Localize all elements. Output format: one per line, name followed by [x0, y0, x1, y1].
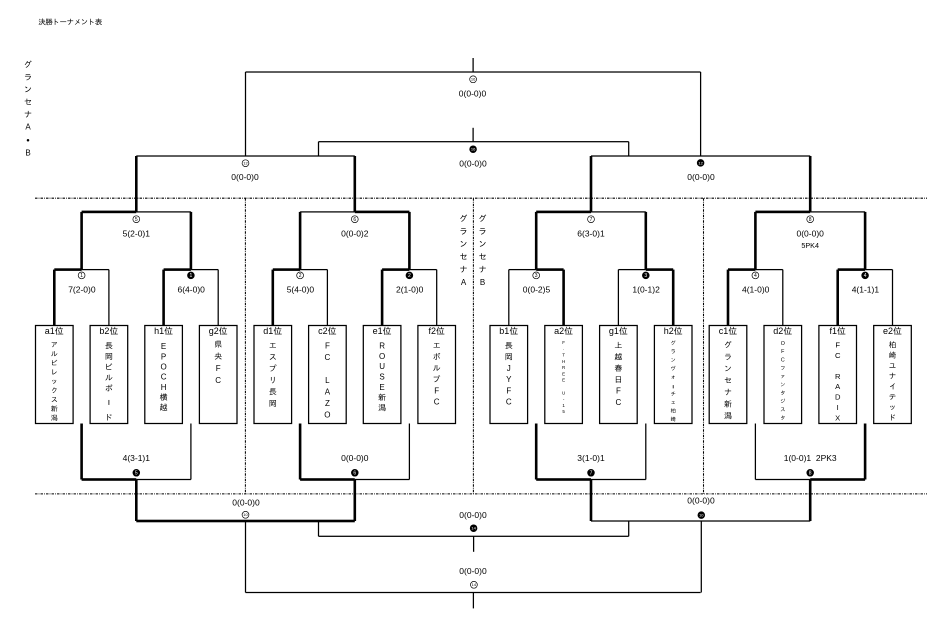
wire riser quarterfinal to semifinal x=810.2	[809, 156, 812, 212]
svg-text:F: F	[325, 341, 330, 350]
wire match 6 left riser	[299, 212, 302, 270]
wire match 7 right riser	[645, 212, 648, 270]
node match 6b consolation	[351, 469, 358, 476]
svg-text:0(0-0)0: 0(0-0)0	[341, 453, 369, 463]
wire match 4b crossbar thick-left	[838, 268, 865, 271]
svg-text:F: F	[616, 387, 621, 396]
wire match 8b crossbar thick-right	[755, 479, 810, 480]
svg-text:14: 14	[472, 582, 477, 587]
wire semifinal left crossbar (match 12)	[136, 155, 354, 156]
svg-text:4: 4	[864, 273, 867, 279]
svg-text:d1: d1	[263, 326, 273, 336]
wire 13th-place bottom stub	[473, 536, 474, 552]
wire 13th-place crossbar (match 14b)	[319, 536, 629, 537]
node match 3b round1	[642, 272, 649, 279]
team box a1位 アルビレックス新潟	[36, 326, 74, 424]
wire match 10b crossbar	[591, 520, 810, 521]
svg-text:h2: h2	[664, 326, 674, 336]
svg-text:d2: d2	[773, 326, 783, 336]
svg-text:O: O	[160, 363, 166, 372]
svg-text:4(1-0)0: 4(1-0)0	[742, 284, 770, 294]
svg-text:0(0-0)0: 0(0-0)0	[796, 228, 824, 238]
svg-text:3: 3	[644, 273, 647, 279]
wire match 1 crossbar thick-left	[54, 268, 81, 271]
svg-text:D: D	[835, 393, 841, 402]
wire 3rd-place top stub	[472, 128, 473, 142]
wire 3rd-place crossbar (match 16b)	[319, 141, 629, 142]
svg-text:c2: c2	[318, 326, 328, 336]
wire 3rd-place right drop	[628, 142, 629, 156]
wire match 4b winner drop-left	[836, 270, 839, 326]
wire final crossbar (match 16)	[246, 71, 701, 72]
svg-text:O: O	[379, 352, 385, 361]
node match 4 round1	[752, 272, 759, 279]
wire match 4 crossbar thick-left	[728, 268, 755, 271]
wire match 3b winner drop-right	[672, 270, 675, 326]
svg-text:A: A	[25, 123, 31, 132]
wire match 3 loser drop-left	[508, 270, 509, 326]
wire match 4b loser drop-right	[892, 270, 893, 326]
wire match 1b crossbar thick-left	[164, 268, 191, 271]
wire 3rd-place left drop	[318, 142, 319, 156]
svg-text:0(0-0)0: 0(0-0)0	[232, 498, 260, 508]
team box c1位 グランセナ新潟	[709, 326, 747, 424]
svg-text:B: B	[480, 278, 485, 287]
wire semifinal right riser	[700, 72, 701, 156]
svg-text:4: 4	[754, 273, 757, 279]
svg-text:e2: e2	[883, 326, 893, 336]
wire match 4 loser drop-right	[782, 270, 783, 326]
svg-text:7: 7	[590, 471, 593, 477]
wire match 8b advance drop	[809, 480, 812, 522]
team box b2位 長岡ビルボード	[90, 326, 128, 424]
wire match 2 crossbar thick-left	[273, 268, 300, 271]
team box a2位 F.THREE U-15	[545, 326, 583, 424]
svg-text:0(0-0)0: 0(0-0)0	[459, 158, 487, 168]
svg-text:A: A	[461, 278, 467, 287]
wire 13th-place left drop	[318, 521, 319, 536]
svg-text:I: I	[837, 403, 839, 412]
svg-text:5(4-0)0: 5(4-0)0	[287, 284, 315, 294]
wire match 2 winner drop-left	[272, 270, 275, 326]
svg-text:1: 1	[80, 273, 83, 279]
svg-text:7: 7	[590, 217, 593, 223]
svg-text:C: C	[506, 398, 512, 407]
node match 14	[471, 581, 478, 588]
svg-text:C: C	[781, 357, 785, 363]
svg-text:0(0-0)0: 0(0-0)0	[687, 496, 715, 506]
team box g1位 上越春日FC	[600, 326, 638, 424]
team box f1位 FC RADIX	[819, 326, 857, 424]
svg-text:A: A	[325, 387, 331, 396]
wire match 1 winner drop-left	[53, 270, 56, 326]
wire match 1 loser drop-right	[108, 270, 109, 326]
svg-text:5PK4: 5PK4	[801, 241, 819, 250]
svg-text:16: 16	[471, 77, 476, 82]
svg-text:H: H	[562, 359, 565, 364]
svg-text:2(1-0)0: 2(1-0)0	[396, 284, 424, 294]
team box f2位 エボルブFC	[418, 326, 456, 424]
svg-text:6: 6	[353, 471, 356, 477]
wire match 7 left riser	[535, 212, 538, 270]
wire match 10 crossbar (all thick)	[136, 520, 354, 523]
node match 8b consolation	[807, 469, 814, 476]
svg-text:E: E	[562, 378, 565, 383]
wire consolation 6b loser drop x=409.4	[409, 424, 410, 480]
svg-text:U: U	[562, 390, 565, 395]
team box d1位 エスプリ長岡	[254, 326, 292, 424]
wire match 1b loser drop-right	[218, 270, 219, 326]
node match 16 final	[470, 76, 477, 83]
svg-text:h1: h1	[154, 326, 164, 336]
team box d2位 OFCファンタジスタ	[764, 326, 802, 424]
svg-text:a2: a2	[554, 326, 564, 336]
team box e1位 ROUSE新潟	[363, 326, 401, 424]
svg-text:C: C	[835, 351, 841, 360]
svg-text:1(0-0)1 2PK3: 1(0-0)1 2PK3	[784, 453, 837, 463]
wire consolation 5b loser drop x=190.9	[190, 424, 191, 480]
node match 10b	[698, 512, 705, 519]
svg-text:12: 12	[243, 161, 248, 166]
wire match 5 crossbar thick-left	[82, 211, 137, 214]
svg-text:6: 6	[353, 217, 356, 223]
svg-text:12: 12	[698, 160, 703, 165]
title 決勝トーナメント表	[39, 18, 102, 25]
node match 5 quarterfinal	[133, 216, 140, 223]
wire consolation 6b winner drop x=300.1	[299, 424, 302, 480]
svg-text:C: C	[434, 398, 440, 407]
svg-text:b2: b2	[99, 326, 109, 336]
node match 7 quarterfinal	[588, 216, 595, 223]
wire match 3b loser drop-left	[618, 270, 619, 326]
svg-text:E: E	[562, 371, 565, 376]
dotted divider horizontal upper	[35, 197, 927, 199]
wire consolation 5b winner drop x=81.6	[80, 424, 83, 480]
svg-text:0(0-0)0: 0(0-0)0	[459, 566, 487, 576]
svg-text:b1: b1	[499, 326, 509, 336]
wire bottom-final left riser	[245, 521, 246, 593]
svg-text:C: C	[616, 398, 622, 407]
wire bottom-final bottom stub	[473, 593, 474, 609]
wire match 6 right riser	[408, 212, 411, 270]
svg-text:14: 14	[471, 526, 476, 531]
wire match 2b crossbar thick-left	[382, 268, 409, 271]
svg-text:0(0-0)0: 0(0-0)0	[687, 172, 715, 182]
node match 7b consolation	[588, 469, 595, 476]
svg-text:C: C	[161, 373, 167, 382]
team box g2位 県央FC	[199, 326, 237, 424]
svg-text:0(0-0)0: 0(0-0)0	[459, 88, 487, 98]
svg-text:.: .	[563, 346, 564, 351]
wire match 7 crossbar thick-left	[536, 211, 591, 214]
svg-text:F: F	[562, 340, 565, 345]
wire final top stub	[472, 58, 473, 72]
svg-text:8: 8	[809, 471, 812, 477]
team box e2位 柏崎ユナイテッド	[874, 326, 912, 424]
team box c2位 FC LAZO	[309, 326, 347, 424]
svg-text:e1: e1	[373, 326, 383, 336]
svg-text:F: F	[216, 364, 221, 373]
wire match 6b crossbar thick-left	[300, 478, 355, 481]
wire 13th-place right drop	[628, 521, 629, 536]
svg-text:10: 10	[699, 513, 704, 518]
dotted divider horizontal lower	[35, 493, 927, 495]
svg-text:2: 2	[408, 273, 411, 279]
wire match 8 crossbar thick-left	[755, 211, 810, 214]
svg-text:X: X	[835, 414, 840, 423]
node match 6 quarterfinal	[351, 216, 358, 223]
wire riser quarterfinal to semifinal x=591.0	[590, 156, 593, 212]
node match 8 quarterfinal	[807, 216, 814, 223]
svg-text:4(1-1)1: 4(1-1)1	[852, 284, 880, 294]
wire bottom-final crossbar (match 14)	[246, 592, 701, 593]
node match 1b round1	[188, 272, 195, 279]
svg-text:6(3-0)1: 6(3-0)1	[577, 228, 605, 238]
dotted divider vertical right	[703, 198, 705, 494]
node match 16b 3rd-place	[470, 146, 477, 153]
wire match 3b crossbar thick-right	[618, 269, 645, 270]
node match 3 round1	[533, 272, 540, 279]
svg-text:5: 5	[135, 471, 138, 477]
node match 2b round1	[406, 272, 413, 279]
wire match 4 winner drop-left	[727, 270, 730, 326]
node match 4b round1	[862, 272, 869, 279]
svg-text:2: 2	[299, 273, 302, 279]
svg-text:10: 10	[243, 512, 248, 517]
svg-text:U: U	[379, 362, 385, 371]
svg-text:4(3-1)1: 4(3-1)1	[123, 453, 151, 463]
svg-text:0(0-0)0: 0(0-0)0	[231, 172, 259, 182]
svg-text:F: F	[434, 386, 439, 395]
wire match 2b loser drop-right	[436, 270, 437, 326]
wire match 6b advance drop	[354, 480, 357, 522]
svg-text:c1: c1	[719, 326, 729, 336]
wire bottom-final right riser	[701, 521, 702, 593]
svg-text:0(0-2)5: 0(0-2)5	[523, 284, 551, 294]
svg-text:O: O	[781, 341, 785, 347]
svg-text:a1: a1	[45, 326, 55, 336]
svg-text:1: 1	[190, 273, 193, 279]
node match 14b	[470, 525, 477, 532]
node match 10	[242, 511, 249, 518]
svg-text:F: F	[835, 340, 840, 349]
team box h2位 グランヴォーチェ柏崎	[654, 326, 692, 424]
svg-text:5: 5	[135, 217, 138, 223]
team box b1位 長岡JYFC	[490, 326, 528, 424]
wire semifinal right crossbar (match 12b)	[591, 155, 810, 156]
svg-text:3(1-0)1: 3(1-0)1	[577, 453, 605, 463]
svg-text:6(4-0)0: 6(4-0)0	[177, 284, 205, 294]
wire semifinal left riser	[245, 72, 246, 156]
svg-text:J: J	[507, 364, 511, 373]
wire match 8 right riser	[864, 212, 867, 270]
node match 12 semifinal-left	[242, 160, 249, 167]
svg-text:C: C	[215, 376, 221, 385]
svg-text:S: S	[379, 372, 384, 381]
svg-text:16: 16	[471, 147, 476, 152]
svg-text:F: F	[506, 386, 511, 395]
wire match 1b winner drop-left	[162, 270, 165, 326]
label group グランセナB (center)	[479, 215, 486, 287]
node match 2 round1	[297, 272, 304, 279]
wire match 3 winner drop-right	[562, 270, 565, 326]
team box h1位 EPOCH横越	[145, 326, 183, 424]
dotted divider vertical center	[472, 198, 474, 494]
wire riser quarterfinal to semifinal x=354.8	[354, 156, 357, 212]
wire consolation 7b winner drop x=536.2	[535, 424, 538, 480]
wire match 2 loser drop-right	[327, 270, 328, 326]
svg-text:T: T	[562, 353, 565, 358]
wire match 3 crossbar thick-right	[509, 269, 536, 270]
svg-text:g1: g1	[609, 326, 619, 336]
svg-text:O: O	[324, 410, 330, 419]
wire riser quarterfinal to semifinal x=136.3	[135, 156, 138, 212]
label group グランセナA (center)	[460, 215, 467, 287]
wire match 7b crossbar thick-left	[536, 478, 591, 481]
svg-text:8: 8	[809, 217, 812, 223]
wire match 5 left riser	[80, 212, 83, 270]
svg-text:H: H	[161, 383, 167, 392]
svg-text:f2: f2	[428, 326, 436, 336]
node match 12b semifinal-right	[697, 160, 704, 167]
node match 1 round1	[78, 272, 85, 279]
svg-text:5(2-0)1: 5(2-0)1	[123, 228, 151, 238]
svg-text:B: B	[25, 149, 30, 158]
wire consolation 8b winner drop x=865.1	[864, 424, 867, 480]
wire match 5 right riser	[190, 212, 193, 270]
wire match 8 left riser	[754, 212, 757, 270]
svg-text:L: L	[325, 376, 330, 385]
wire match 2b winner drop-left	[381, 270, 384, 326]
wire match 6 crossbar thick-right	[300, 211, 355, 212]
wire match 5b advance drop	[135, 480, 138, 522]
svg-text:P: P	[161, 352, 166, 361]
label group グランセナA・B (left margin)	[25, 61, 32, 158]
svg-text:3: 3	[535, 273, 538, 279]
node match 5b consolation	[133, 469, 140, 476]
svg-text:0(0-0)0: 0(0-0)0	[459, 510, 487, 520]
svg-text:R: R	[379, 341, 385, 350]
svg-text:E: E	[161, 342, 166, 351]
svg-text:C: C	[325, 353, 331, 362]
svg-text:g2: g2	[209, 326, 219, 336]
svg-text:1(0-1)2: 1(0-1)2	[632, 284, 660, 294]
svg-text:7(2-0)0: 7(2-0)0	[68, 284, 96, 294]
svg-text:Y: Y	[506, 375, 512, 384]
svg-text:E: E	[379, 383, 384, 392]
wire consolation 7b loser drop x=645.8	[645, 424, 646, 480]
dotted divider vertical left	[244, 198, 246, 494]
svg-text:R: R	[835, 372, 841, 381]
wire match 5b crossbar thick-left	[82, 478, 137, 481]
svg-text:f1: f1	[829, 326, 837, 336]
wire consolation 8b loser drop x=755.4	[755, 424, 756, 480]
svg-text:Z: Z	[325, 399, 330, 408]
wire match 7b advance drop	[590, 480, 593, 522]
svg-text:0(0-0)2: 0(0-0)2	[341, 228, 369, 238]
